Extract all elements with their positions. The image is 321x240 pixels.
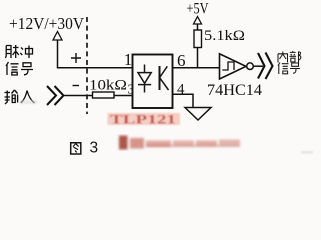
wire inverter output: [253, 65, 263, 67]
node - (minus polarity): [73, 85, 80, 87]
isolation dashed line: [86, 17, 88, 114]
inverter output bubble: [247, 63, 254, 70]
scan artifact faint marks: [20, 100, 313, 154]
label 输入 (input): [5, 90, 18, 104]
inverter hysteresis symbol: [222, 62, 234, 70]
svg-text:+12V/+30V: +12V/+30V: [9, 14, 85, 33]
svg-text:4: 4: [177, 82, 185, 98]
wire pin 6 to inverter: [173, 67, 220, 69]
wire from +12V arrow down to pin1 wire: [57, 40, 59, 68]
wire pin 1 horizontal: [57, 67, 133, 69]
optocoupler phototransistor symbol: [160, 66, 169, 90]
label 内部 (internal): [278, 52, 288, 63]
optocoupler U1 body: [133, 55, 173, 109]
wire pin 3 right segment: [114, 95, 133, 97]
svg-text:10kΩ: 10kΩ: [89, 78, 127, 94]
ground: [185, 108, 211, 121]
inverter U2 triangle: [220, 54, 247, 79]
input connector chevron: [47, 86, 64, 105]
wire pin 4 to ground: [173, 94, 194, 107]
svg-text:5.1kΩ: 5.1kΩ: [204, 28, 245, 44]
power arrow +12V/+30V: [53, 32, 62, 41]
caption 图 (figure): [71, 143, 81, 154]
svg-text:3: 3: [90, 140, 99, 157]
wire +5V arrow to resistor: [197, 24, 199, 30]
resistor R 10kΩ: [93, 92, 115, 98]
svg-text:TLP121: TLP121: [110, 113, 176, 127]
svg-text:+5V: +5V: [187, 1, 209, 18]
label 信号 (signal, right): [278, 63, 289, 75]
node + (plus polarity): [71, 53, 81, 63]
wire pin 3 left segment: [64, 95, 93, 97]
caption red smudge (redacted text): [119, 136, 240, 150]
label 信号 (signal): [6, 62, 19, 75]
wire resistor to pin6 wire junction: [197, 48, 199, 68]
label 脉冲 (pulse): [5, 45, 18, 58]
power arrow +5V: [194, 17, 202, 25]
svg-text:74HC14: 74HC14: [207, 82, 262, 99]
resistor R 5.1kΩ: [194, 30, 202, 48]
output connector chevron: [258, 53, 273, 80]
part label TLP121 (red): [108, 113, 181, 127]
svg-text:1: 1: [124, 50, 133, 69]
optocoupler LED symbol: [138, 65, 151, 93]
